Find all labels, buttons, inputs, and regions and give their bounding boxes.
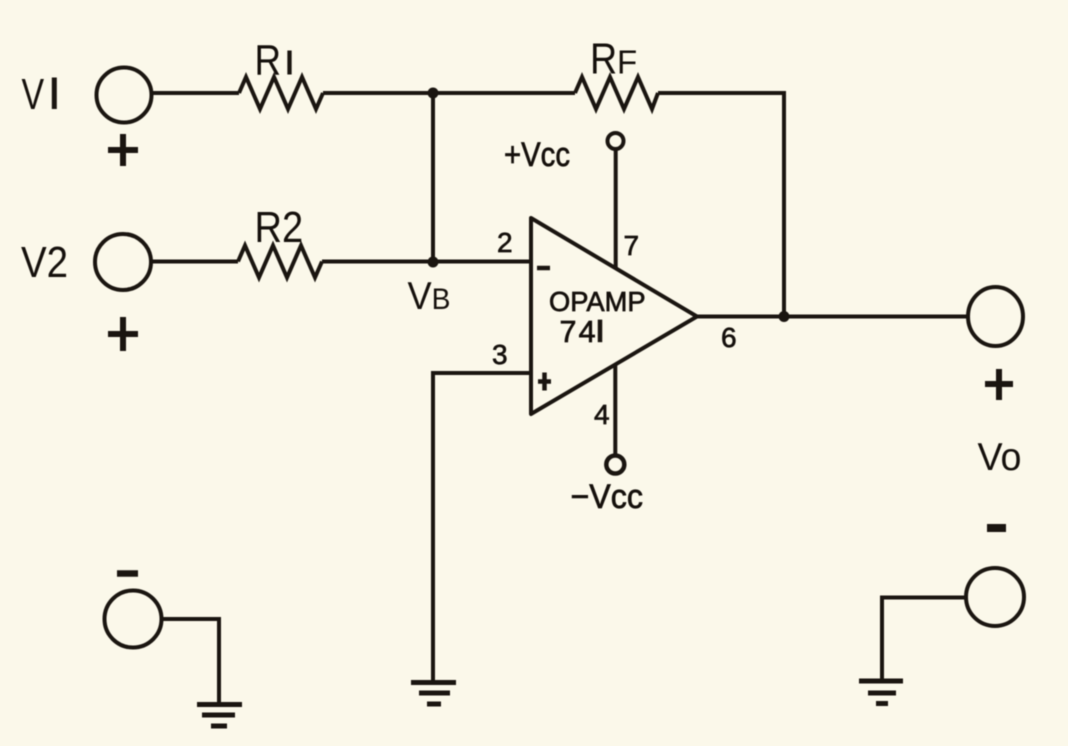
wire R2 to op-amp pin 2	[322, 260, 531, 264]
op-amp U1 triangle	[531, 218, 697, 414]
V2 polarity plus	[108, 317, 138, 351]
voltage source V1	[97, 68, 152, 123]
resistor R2	[238, 246, 322, 278]
wire V2 to R2	[151, 260, 238, 264]
ground center	[411, 683, 456, 705]
node C (output junction)	[779, 311, 790, 322]
wire op-amp output to Vo	[697, 315, 967, 319]
resistor RF	[575, 77, 658, 109]
wire node A down to node B	[431, 93, 435, 262]
svg-text:74: 74	[560, 315, 598, 349]
svg-text:Vo: Vo	[978, 436, 1022, 479]
grounded source circle	[105, 591, 162, 648]
svg-text:V2: V2	[21, 238, 68, 287]
+Vcc terminal circle	[608, 133, 624, 149]
op-amp inverting input minus	[537, 266, 550, 271]
ground left	[197, 705, 242, 727]
svg-text:F: F	[617, 44, 637, 81]
wire RF to right corner	[658, 91, 784, 95]
svg-text:2: 2	[497, 227, 513, 258]
svg-text:V: V	[22, 70, 45, 119]
svg-text:OPAMP: OPAMP	[549, 286, 646, 317]
wire grounded source to ground	[162, 619, 220, 702]
svg-text:+Vcc: +Vcc	[504, 136, 570, 174]
svg-text:R: R	[255, 37, 282, 84]
svg-text:VB: VB	[408, 275, 451, 318]
wire V1 to R1	[152, 91, 239, 95]
op-amp non-inverting input plus	[538, 373, 551, 391]
Vo polarity minus	[987, 524, 1006, 532]
Vo polarity plus	[985, 369, 1013, 400]
V1 polarity plus	[108, 134, 138, 166]
svg-text:4: 4	[594, 399, 610, 430]
-Vcc terminal circle	[606, 456, 624, 474]
wire R1 to node A	[323, 91, 575, 95]
wire right vertical feedback	[782, 91, 786, 317]
svg-text:R: R	[590, 34, 617, 83]
svg-text:R2: R2	[255, 203, 304, 252]
voltage source V2	[95, 234, 151, 290]
svg-text:7: 7	[624, 230, 640, 261]
resistor R1	[239, 77, 323, 109]
node A (top junction)	[428, 88, 439, 99]
pin 7 wire	[614, 149, 618, 269]
pin 3 wire to ground leg	[433, 373, 531, 680]
output terminal Vo minus circle	[966, 568, 1024, 626]
svg-text:6: 6	[721, 322, 737, 353]
output terminal Vo plus circle	[968, 287, 1023, 346]
pin 4 wire	[613, 365, 617, 456]
node B (summing junction VB)	[428, 257, 439, 268]
ground source minus sign	[117, 570, 138, 577]
svg-text:−Vcc: −Vcc	[571, 478, 644, 516]
ground right	[859, 681, 903, 704]
wire Vo minus to ground	[882, 598, 966, 680]
svg-text:3: 3	[492, 339, 508, 370]
